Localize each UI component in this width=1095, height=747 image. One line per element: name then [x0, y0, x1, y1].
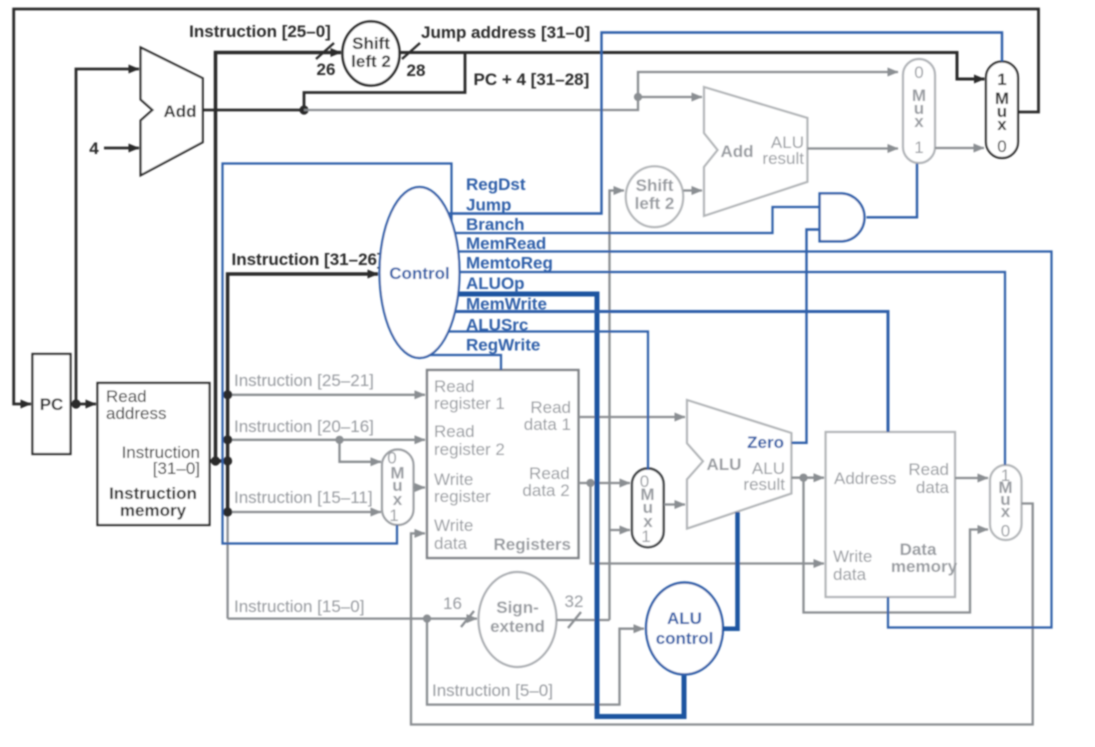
wire: Branch signal to AND gate [419, 207, 820, 233]
mux: MemtoReg mux [990, 465, 1022, 540]
wire: jump address to top-right mux input 1 [400, 53, 985, 80]
junction: instruction bus node 1 [211, 456, 220, 465]
svg-text:0: 0 [914, 63, 923, 82]
adder: branch Add (gray) [704, 87, 807, 216]
junction: instr[15-0] node [423, 615, 431, 623]
svg-text:ALU: ALU [707, 455, 742, 474]
mux: branch mux (gray, top) [903, 59, 935, 163]
svg-text:x: x [997, 115, 1007, 134]
wire: shift left 2 output into branch Add [683, 189, 702, 191]
junction: PC+4 node [299, 105, 308, 114]
svg-text:32: 32 [565, 592, 584, 611]
svg-text:MemRead: MemRead [466, 234, 546, 253]
svg-text:Registers: Registers [494, 535, 571, 554]
wire: ALU control output to ALU [723, 512, 738, 629]
wire: ALUOp signal to ALU control [419, 294, 684, 717]
svg-text:Control: Control [389, 264, 449, 283]
AND gate (branch and zero) [820, 193, 865, 241]
svg-text:control: control [656, 629, 714, 648]
svg-text:register 1: register 1 [434, 394, 505, 413]
svg-text:Shift: Shift [352, 34, 390, 53]
svg-text:0: 0 [997, 137, 1006, 156]
wire: sign-extend output [557, 619, 610, 621]
svg-text:Branch: Branch [466, 215, 525, 234]
wire: ALU result down and around to MemtoReg mux input 0 [804, 478, 989, 613]
svg-text:memory: memory [891, 557, 958, 576]
wire: Jump signal to jump mux select [419, 33, 1002, 214]
instruction memory box [98, 383, 210, 525]
svg-text:x: x [914, 112, 924, 131]
svg-text:1: 1 [641, 527, 650, 546]
svg-text:Instruction [31–26]: Instruction [31–26] [232, 250, 383, 269]
wire: instruction[20-16] to read register 2 [228, 439, 425, 441]
svg-text:Read: Read [434, 422, 475, 441]
shifter: Shift left 2 (jump) [343, 22, 400, 86]
adder Add (PC+4) [141, 48, 203, 176]
svg-text:MemWrite: MemWrite [466, 295, 547, 314]
mux: jump mux (black, top right) [986, 62, 1018, 159]
PC register [33, 354, 71, 454]
svg-text:PC: PC [40, 395, 64, 414]
svg-text:28: 28 [407, 61, 426, 80]
wire: instruction[15-0] to sign-extend [228, 617, 477, 619]
junction: ALU result node [799, 474, 807, 482]
svg-text:ALUOp: ALUOp [466, 274, 525, 293]
junction: PC+4 gray node [634, 93, 642, 101]
mux: RegDst write register mux [382, 450, 414, 526]
svg-text:1: 1 [914, 138, 923, 157]
junction: PC output node [71, 399, 80, 408]
wire: RegDst mux output to write register [414, 486, 426, 488]
svg-text:result: result [762, 149, 804, 168]
shifter: Shift left 2 (branch, gray) [626, 166, 683, 227]
wire: MemtoReg signal to MemtoReg mux select [419, 272, 1005, 465]
svg-text:[31–0]: [31–0] [153, 459, 200, 478]
svg-text:16: 16 [443, 594, 462, 613]
svg-text:1: 1 [997, 70, 1006, 89]
wire: PC output to Instruction memory read address [71, 403, 97, 406]
wire: PC output up to Add input [76, 69, 139, 404]
svg-text:0: 0 [1001, 522, 1010, 541]
wire: branch mux output to jump mux input 0 [935, 147, 984, 149]
svg-text:register: register [434, 487, 491, 506]
junction: read data 2 node [586, 479, 594, 487]
wire: read data 2 to ALUSrc mux input 0 [579, 482, 631, 484]
wire: constant 4 into Add [104, 147, 139, 150]
wire: PC+4 gray to branch adder area [304, 97, 638, 110]
svg-text:Shift: Shift [636, 176, 674, 195]
svg-text:1: 1 [389, 506, 398, 525]
svg-text:Instruction [20–16]: Instruction [20–16] [234, 417, 374, 436]
wire: new PC value from top-right mux output around top edge into PC [14, 9, 1039, 404]
svg-text:Instruction [15–11]: Instruction [15–11] [234, 488, 373, 507]
wire: instruction[15-11] into RegDst mux input 1 [228, 511, 381, 513]
wire: sign-extend output up to shift left 2 [610, 191, 625, 621]
wire: PC+4 into branch Add top input [638, 96, 702, 98]
svg-text:Jump: Jump [466, 196, 511, 215]
svg-text:PC + 4 [31–28]: PC + 4 [31–28] [474, 70, 590, 89]
svg-text:26: 26 [317, 60, 336, 79]
svg-text:Instruction [15–0]: Instruction [15–0] [234, 597, 364, 616]
wire: instruction[25-0] vertical bus up to shift-left-2 [216, 53, 342, 462]
svg-text:data 2: data 2 [522, 481, 569, 500]
wire: instruction bus out of instruction memory [210, 459, 228, 463]
wire: instruction[25-21] to read register 1 [228, 394, 425, 396]
bus slash: 28 [402, 43, 420, 59]
svg-text:left 2: left 2 [635, 194, 675, 213]
svg-text:MemtoReg: MemtoReg [466, 254, 553, 273]
junction: instruction bus node 2 [223, 456, 232, 465]
wire: instruction[20-16] branch down into RegDst mux input 0 [340, 440, 382, 462]
wire: read data 2 to data memory write data [591, 483, 825, 564]
bus slash: 16 [461, 611, 474, 627]
svg-text:RegDst: RegDst [466, 175, 526, 194]
wire: ALU result to data memory address [791, 477, 824, 479]
svg-text:memory: memory [120, 501, 187, 520]
wire: MemRead signal to data memory bottom [419, 252, 1052, 628]
sign extender [479, 572, 557, 667]
svg-text:extend: extend [490, 617, 545, 636]
wire: read data 1 to ALU [579, 416, 686, 418]
svg-text:x: x [1001, 502, 1011, 521]
wire: PC+4[31-28] up and right joining jump address [304, 53, 465, 111]
svg-text:Add: Add [720, 142, 753, 161]
registers box [427, 370, 579, 558]
ALU control unit [646, 583, 723, 675]
svg-text:Write: Write [833, 547, 872, 566]
wire: ALUSrc mux output to ALU [664, 503, 685, 505]
wire: instruction bus black down segment [226, 461, 230, 512]
svg-text:Address: Address [834, 469, 896, 488]
bus slash: 26 [316, 43, 334, 59]
wire: instruction[5-0] to ALU control [427, 619, 644, 705]
svg-text:Instruction [25–0]: Instruction [25–0] [189, 22, 331, 41]
svg-text:data 1: data 1 [524, 415, 571, 434]
bus slash: 32 [568, 612, 581, 628]
mux: ALUSrc mux [632, 469, 664, 548]
svg-text:Write: Write [434, 516, 473, 535]
svg-text:RegWrite: RegWrite [466, 336, 540, 355]
svg-text:ALU: ALU [667, 609, 702, 628]
wire: read data to MemtoReg mux input 1 [955, 477, 988, 479]
svg-text:data: data [434, 534, 468, 553]
svg-text:data: data [833, 565, 867, 584]
wire: RegWrite signal to registers [419, 355, 501, 370]
svg-text:result: result [743, 475, 785, 494]
svg-text:data: data [916, 478, 950, 497]
svg-text:register 2: register 2 [434, 440, 505, 459]
svg-text:Add: Add [163, 102, 196, 121]
svg-text:Jump address [31–0]: Jump address [31–0] [421, 23, 590, 42]
ALU [687, 400, 791, 529]
svg-text:ALUSrc: ALUSrc [466, 316, 528, 335]
wire: sign-extend output to ALUSrc mux input 1 [610, 529, 631, 531]
svg-text:Zero: Zero [747, 433, 784, 452]
wire: MemWrite signal to data memory top [419, 312, 888, 433]
wire: RegDst signal [223, 164, 452, 544]
wire: MemtoReg mux output around bottom to registers write data [411, 504, 1033, 725]
wire: ALUSrc signal to ALUSrc mux select [419, 332, 648, 471]
svg-text:Sign-: Sign- [496, 598, 539, 617]
wire: PC+4 to top gray mux input 0 [638, 72, 898, 97]
svg-text:Instruction [25–21]: Instruction [25–21] [234, 371, 374, 390]
wire: AND output to branch mux select [866, 164, 917, 218]
data memory box [826, 432, 955, 597]
svg-text:Read: Read [908, 460, 949, 479]
wire: Add output (PC+4) to junction [203, 109, 304, 112]
wire: branch Add output to top gray mux input 1 [807, 147, 898, 149]
wire: instruction bus gray down to instr[15-0] [226, 512, 228, 619]
svg-text:4: 4 [89, 139, 99, 158]
svg-text:left 2: left 2 [351, 52, 391, 71]
control unit [380, 187, 460, 358]
wire: instruction[31-26] vertical bus [228, 274, 378, 461]
svg-text:address: address [106, 404, 166, 423]
wire: Zero to AND gate [791, 230, 819, 443]
svg-text:Instruction [5–0]: Instruction [5–0] [432, 681, 553, 700]
